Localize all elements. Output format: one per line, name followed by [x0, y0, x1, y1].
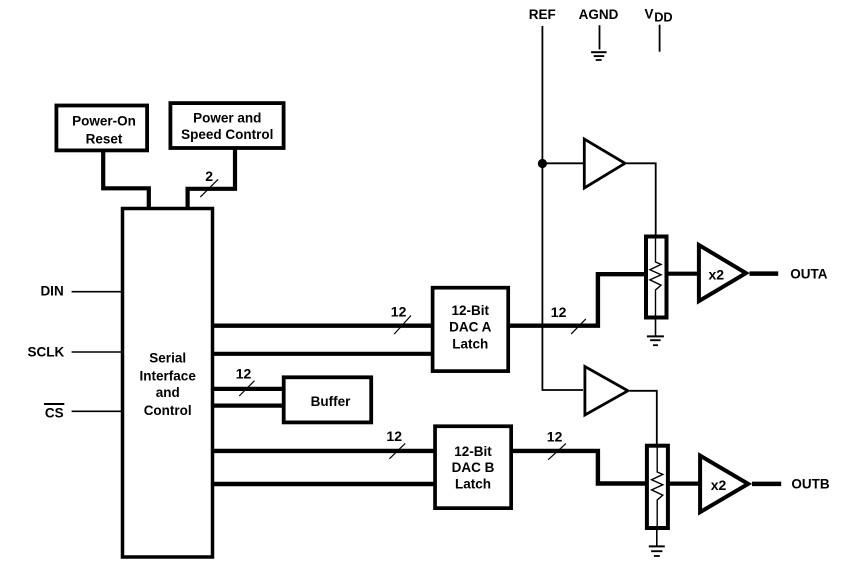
box Serial Interface and Control [123, 209, 213, 558]
svg-text:12-Bit: 12-Bit [454, 444, 492, 459]
wire resistor A to x2 amp A [666, 272, 701, 276]
bus slash 12 DAC A output [571, 319, 586, 334]
bus slash 12 DAC B output [548, 444, 566, 460]
svg-text:Buffer: Buffer [311, 394, 351, 409]
bus width label 12 Buffer input [236, 365, 252, 381]
wire Power and Speed Control to Serial Interface (2-bit) [188, 150, 235, 208]
op-amp x2 output amp A [699, 245, 746, 301]
svg-text:12: 12 [236, 365, 252, 381]
op-amp reference buffer 2 [585, 367, 628, 416]
ground B [649, 546, 665, 556]
node VDD label [645, 7, 673, 25]
bus Serial to DAC A latch (12-bit) [212, 324, 433, 328]
wire buffer 2 output to resistor B top [630, 391, 657, 446]
svg-text:2: 2 [205, 168, 213, 184]
wire resistor A bottom to ground [655, 318, 657, 337]
svg-text:DAC A: DAC A [449, 320, 491, 335]
svg-text:OUTA: OUTA [790, 267, 827, 282]
resistor string A box [646, 237, 667, 318]
svg-text:Latch: Latch [452, 336, 488, 351]
wire AGND stub [599, 25, 601, 49]
svg-text:DIN: DIN [40, 283, 63, 298]
svg-text:12-Bit: 12-Bit [452, 303, 490, 318]
svg-text:Reset: Reset [86, 132, 123, 147]
bus Serial to DAC B latch (12-bit) [212, 449, 436, 453]
svg-text:12: 12 [551, 304, 567, 320]
wire Serial to DAC B latch control [212, 482, 436, 486]
svg-text:12: 12 [386, 428, 402, 444]
box 12-Bit DAC B Latch [435, 426, 511, 508]
bus width label 12 DAC A output [551, 304, 567, 320]
bus slash 12 Buffer input [239, 381, 254, 396]
wire CS lead [72, 410, 123, 412]
bus width label 2 [205, 168, 213, 184]
svg-text:12: 12 [391, 303, 407, 319]
svg-text:Serial: Serial [149, 351, 186, 366]
svg-text:DD: DD [654, 10, 672, 25]
svg-text:Power and: Power and [193, 110, 261, 125]
wire Serial to DAC A latch control [212, 352, 433, 356]
svg-text:SCLK: SCLK [28, 345, 65, 360]
wire resistor B bottom to ground [656, 528, 658, 546]
bus DAC A latch to resistor string A (12-bit) [509, 274, 646, 326]
svg-text:Latch: Latch [455, 477, 491, 492]
bus slash 12 DAC A input [394, 316, 411, 335]
box Power-On Reset [56, 106, 147, 151]
pin OUTB label [791, 477, 829, 492]
wire x2 amp B output OUTB [752, 482, 781, 487]
svg-text:and: and [156, 385, 180, 400]
bus Serial to Buffer (12-bit) [212, 387, 284, 391]
op-amp reference buffer 1 [584, 139, 625, 188]
svg-text:OUTB: OUTB [791, 477, 829, 492]
pin OUTA label [790, 267, 827, 282]
svg-text:x2: x2 [711, 477, 727, 493]
box Power and Speed Control [170, 103, 283, 148]
wire x2 amp A output OUTA [750, 271, 779, 276]
svg-text:Control: Control [144, 403, 192, 418]
wire DIN lead [72, 291, 123, 293]
svg-text:CS: CS [45, 405, 64, 420]
node REF junction dot [538, 159, 547, 168]
bus width label 12 DAC A input [391, 303, 407, 319]
wire Power-On Reset to Serial Interface [103, 152, 149, 208]
box 12-Bit DAC A Latch [433, 288, 509, 371]
svg-text:V: V [645, 7, 654, 22]
svg-text:Interface: Interface [140, 369, 197, 384]
wire buffer 1 output to resistor A top [627, 163, 656, 237]
node REF label [529, 7, 556, 22]
svg-text:12: 12 [547, 429, 563, 445]
op-amp x2 output amp B [700, 456, 748, 512]
pin DIN label [40, 283, 63, 298]
resistor zigzag A [650, 238, 661, 318]
wire resistor B to x2 amp B [667, 482, 702, 486]
svg-text:DAC B: DAC B [452, 460, 495, 475]
svg-text:Speed Control: Speed Control [181, 127, 273, 142]
wire SCLK lead [72, 351, 123, 353]
wire REF to buffer amp 1 [542, 162, 584, 164]
wire REF vertical net [542, 26, 583, 390]
bus slash 2 [200, 179, 218, 197]
resistor zigzag B [652, 447, 663, 528]
svg-text:AGND: AGND [579, 7, 619, 22]
svg-text:REF: REF [529, 7, 556, 22]
bus DAC B latch to resistor string B (12-bit) [511, 451, 649, 484]
ground A [647, 336, 664, 345]
pin SCLK label [28, 345, 65, 360]
wire VDD stub [659, 25, 661, 52]
bus slash 12 DAC B input [389, 443, 405, 458]
resistor string B box [647, 446, 668, 528]
node AGND label [579, 7, 619, 22]
svg-text:x2: x2 [709, 266, 725, 282]
svg-text:Power-On: Power-On [72, 114, 136, 129]
box Buffer [284, 377, 372, 422]
wire Serial to Buffer control [212, 404, 284, 408]
bus width label 12 DAC B input [386, 428, 402, 444]
bus width label 12 DAC B output [547, 429, 563, 445]
ground AGND [591, 52, 607, 60]
pin CS label with overline [44, 404, 64, 420]
